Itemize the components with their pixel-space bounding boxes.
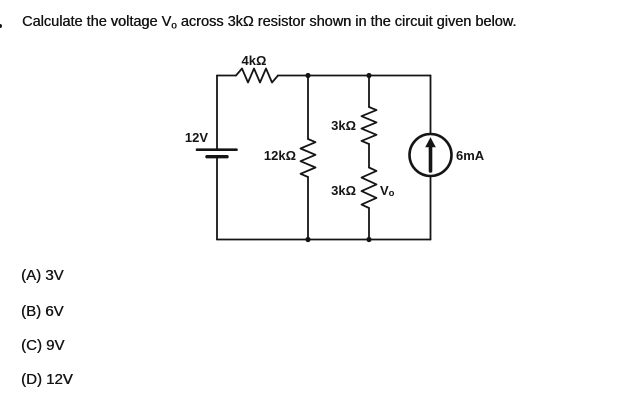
wire: right edge lower (current source down to bottom wire) [430,176,432,240]
wire: 3k branch middle [368,144,370,168]
wire: top-left segment (left edge to 4k resistor) [217,75,236,77]
label 3kOhm lower [331,183,356,198]
wire: left edge upper (top wire down to battery) [216,76,218,150]
wire: top segment from 4k resistor to right edge [278,75,431,77]
svg-text:12V: 12V [185,130,208,145]
resistor R 4kOhm (horizontal zigzag on top wire) [236,69,278,83]
label 4kOhm [242,53,267,68]
node: bottom junction at 12k branch [305,237,310,242]
svg-text:12kΩ: 12kΩ [264,148,296,163]
wire: 3k branch lower [368,208,370,240]
resistor R 3kOhm upper (vertical zigzag) [362,107,377,144]
wire: right edge upper (top wire down to current source) [430,76,432,135]
current source I1 6mA (circle) [410,134,452,176]
option C [21,337,64,354]
node: top junction at 3k branch [366,73,371,78]
resistor R 3kOhm lower (vertical zigzag, Vo across) [362,168,377,209]
wire: bottom wire (left to right edge) [217,239,431,241]
svg-text:6mA: 6mA [456,148,485,163]
option B [21,303,64,320]
wire: left edge lower (battery down to bottom wire) [216,157,218,240]
svg-text:3kΩ: 3kΩ [331,183,356,198]
current source I1 arrow (upward) [425,137,436,171]
option A [21,267,64,284]
resistor R 12kOhm (vertical zigzag) [301,139,316,177]
svg-text:4kΩ: 4kΩ [242,53,267,68]
node: top junction at 12k branch [305,73,310,78]
label 3kOhm upper [331,118,356,133]
label Vo [380,183,395,199]
label 12V [185,130,208,145]
question-number period (cropped at left edge) [0,24,2,28]
battery V1 12V (short thick plate) [207,155,227,158]
svg-text:Vo: Vo [380,183,395,199]
wire: 12k branch lower [307,177,309,240]
node: bottom junction at 3k branch [366,237,371,242]
svg-text:3kΩ: 3kΩ [331,118,356,133]
wire: 3k branch upper [368,76,370,108]
option D [21,371,73,388]
wire: 12k branch upper [307,76,309,140]
label 12kOhm [264,148,296,163]
battery V1 12V (long plate) [197,148,237,151]
question text [22,14,516,30]
label 6mA [456,148,485,163]
